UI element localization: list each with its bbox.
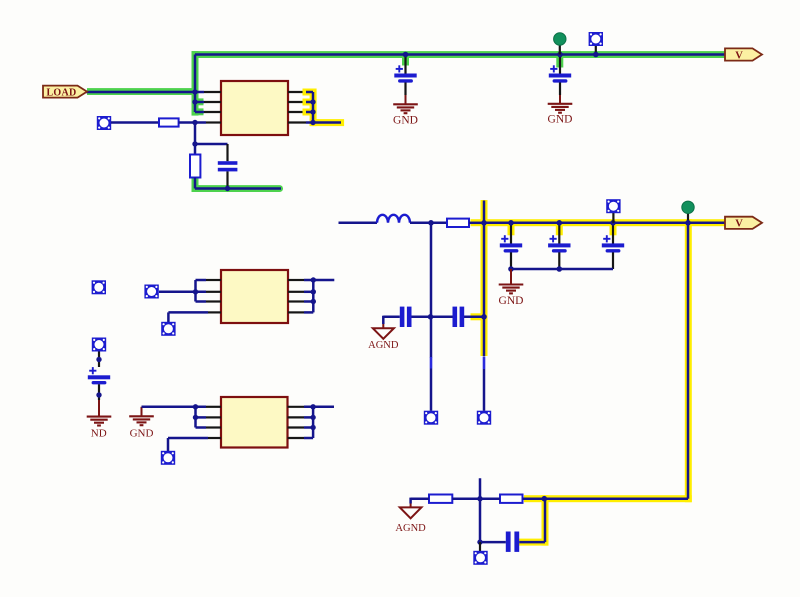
junction V2 bus/vertical bbox=[481, 220, 487, 226]
wire U1 right vertical bbox=[306, 92, 341, 123]
capacitor C3 stub top bbox=[559, 55, 561, 74]
capacitor C5 polarized bbox=[558, 223, 560, 244]
svg-text:GND: GND bbox=[548, 114, 573, 126]
ground GND C2 bbox=[393, 104, 418, 113]
wire inductor feed bbox=[339, 222, 378, 225]
wire green net bottom horizontal bbox=[195, 187, 281, 190]
capacitor C9 polarized bbox=[88, 367, 110, 384]
resistor R1 bbox=[159, 118, 179, 126]
pad TP1 top-left bbox=[97, 116, 111, 130]
junction R5 net bbox=[542, 496, 548, 502]
junction U2 right bbox=[311, 277, 316, 282]
wire vertical R1 net down bbox=[194, 123, 197, 155]
net marker green dot mid bbox=[687, 214, 689, 223]
ground AGND2 bbox=[400, 507, 422, 518]
wire L1 to junction bbox=[410, 222, 447, 225]
pad TP6 at U2 bbox=[144, 285, 158, 299]
ground GND C3 bbox=[548, 104, 573, 113]
junction R4/R5 bbox=[477, 496, 482, 501]
wire stubs U1 left pins 2,3 bbox=[195, 101, 204, 104]
capacitor C4 polarized bbox=[510, 223, 512, 244]
capacitor C2 stub top bbox=[404, 55, 406, 74]
svg-text:V: V bbox=[735, 219, 743, 230]
pad TP4 above V2 bus bbox=[612, 213, 614, 223]
wire AGND2 drop bbox=[410, 504, 412, 508]
connector LOAD bbox=[43, 86, 87, 99]
wire TP9 to C9 bbox=[98, 352, 100, 368]
resistor R2 vertical bbox=[190, 155, 200, 178]
inductor L1 bbox=[377, 215, 410, 223]
svg-text:V: V bbox=[735, 50, 743, 61]
pad TP3 bbox=[477, 411, 491, 425]
ground GND U3 bbox=[141, 407, 143, 416]
wire corner down to C10 bbox=[544, 499, 547, 542]
junction TP9/C9 bbox=[96, 357, 101, 362]
svg-text:LOAD: LOAD bbox=[46, 87, 76, 98]
wire U2 pin4 to pad bbox=[168, 312, 208, 322]
U3 right pin lines bbox=[288, 407, 305, 438]
wire R3 to V2 bus bbox=[469, 222, 484, 225]
ground ND bbox=[87, 417, 112, 426]
op-amp U2 body bbox=[221, 270, 288, 323]
wire LOAD to U1 bbox=[86, 91, 204, 94]
wire branch to C1 bbox=[195, 143, 228, 146]
svg-text:AGND: AGND bbox=[368, 340, 399, 351]
wire R2 bottom to green net bbox=[194, 178, 197, 189]
junction C3 at bus bbox=[557, 52, 563, 58]
wire V2 vertical to pad bbox=[483, 369, 486, 411]
wire AGND2 to R4 bbox=[411, 498, 429, 504]
wire C9 bottom bbox=[98, 384, 100, 400]
junction C2 at bus bbox=[403, 52, 409, 58]
capacitor C2 polarized bbox=[394, 65, 416, 82]
capacitor C8 ceramic bbox=[453, 307, 458, 327]
wire U3 left vertical bbox=[196, 407, 207, 428]
wire top bus bbox=[195, 53, 725, 56]
junction LOAD net at U1 bbox=[192, 89, 197, 94]
resistor R3 bbox=[447, 219, 469, 227]
pad TP5 bbox=[424, 411, 438, 425]
U2 right pin lines bbox=[288, 280, 304, 312]
capacitor C2 bottom stub bbox=[404, 83, 406, 96]
wire segment light blue left bbox=[483, 357, 486, 369]
wire AGND1 net horizontal bbox=[383, 316, 484, 324]
resistor R4 bbox=[429, 495, 452, 503]
ground AGND1 bbox=[373, 328, 394, 339]
junction U1 right pins bbox=[310, 99, 315, 104]
connector V bottom-right bbox=[725, 217, 762, 230]
wire U3 pin4 to pad bbox=[168, 438, 208, 451]
wire U2 right vertical bbox=[304, 280, 334, 312]
junction branch to C1 bbox=[192, 141, 197, 146]
junction U3 left bbox=[193, 404, 198, 409]
wire U2 left vertical bbox=[159, 280, 206, 302]
U2 left pin lines bbox=[206, 280, 221, 312]
pad TP9 above C9 bbox=[92, 338, 106, 352]
wire V2 right vertical down bbox=[687, 223, 690, 499]
U3 left pin lines bbox=[206, 407, 221, 438]
capacitor C6 polarized bbox=[612, 223, 614, 244]
resistor R5 bbox=[500, 495, 523, 503]
wire R4 to R5 bbox=[452, 497, 500, 500]
wire V2 vertical stub bbox=[483, 201, 486, 357]
net U1-right highlight (yellow) bbox=[303, 89, 345, 127]
pad TP8 isolated bbox=[92, 280, 106, 294]
wire GND to U3 pin1 bbox=[142, 406, 207, 409]
junction C10 left bbox=[477, 539, 482, 544]
U1 right pin lines bbox=[288, 92, 306, 123]
junction R1 net bbox=[192, 120, 197, 125]
op-amp U1 body bbox=[221, 81, 288, 135]
svg-text:AGND: AGND bbox=[395, 523, 426, 534]
op-amp U3 body bbox=[221, 397, 288, 448]
capacitor C3 bottom stub bbox=[559, 83, 561, 96]
capacitor C7 ceramic bbox=[400, 307, 405, 327]
capacitor C1 plates bbox=[218, 161, 238, 165]
wire segment light blue bbox=[430, 357, 433, 369]
junction U3 right bbox=[310, 404, 315, 409]
junction U2 left bbox=[193, 289, 198, 294]
wire R5 to corner bbox=[523, 497, 689, 500]
junction green dot stub bbox=[685, 220, 691, 226]
net lower-left highlight (green) bbox=[192, 179, 284, 193]
pad TP10 below U3 bbox=[161, 451, 175, 465]
junction L1/R3 bbox=[428, 220, 434, 226]
wire left vertical from L1 junction bbox=[430, 223, 433, 358]
svg-text:GND: GND bbox=[130, 428, 154, 440]
wire left vertical to pad bbox=[430, 369, 433, 411]
U1 left pin lines bbox=[204, 92, 221, 123]
net marker green dot top bbox=[559, 45, 561, 55]
wire V2 bus horizontal bbox=[484, 222, 725, 225]
wire bottom stub vertical bbox=[479, 478, 482, 542]
wire caps common bottom bbox=[511, 268, 613, 271]
svg-text:GND: GND bbox=[393, 115, 418, 127]
capacitor C3 polarized bbox=[549, 65, 571, 82]
junction AGND1 net crossing bbox=[428, 314, 434, 320]
svg-text:GND: GND bbox=[499, 295, 524, 307]
pad TP2 on top bus bbox=[595, 45, 597, 55]
wire R1 to U1 pin4 bbox=[179, 121, 206, 124]
wire C10 left to vertical bbox=[480, 541, 506, 544]
svg-text:ND: ND bbox=[91, 428, 107, 440]
wire to pad TP11 bbox=[479, 542, 481, 551]
wire vertical from bus to U1 left pins bbox=[194, 55, 197, 113]
capacitor C10 ceramic bbox=[506, 532, 511, 552]
wire to GND mid bbox=[510, 269, 512, 284]
ground GND mid bbox=[499, 285, 524, 294]
pad TP11 bbox=[473, 551, 487, 565]
pad TP7 below U2 bbox=[161, 322, 175, 336]
capacitor C1 stubs bbox=[226, 144, 228, 161]
net V2 highlight (yellow) bbox=[471, 200, 726, 546]
connector V top bbox=[725, 48, 762, 61]
wire U3 right vertical bbox=[304, 407, 334, 438]
junction C1 bottom bbox=[225, 186, 230, 191]
wire TP1 to R1 bbox=[111, 121, 159, 124]
wire AGND1 drop bbox=[382, 324, 384, 328]
net LOAD highlight (green) bbox=[87, 51, 725, 116]
junction caps bottom bbox=[508, 266, 514, 272]
